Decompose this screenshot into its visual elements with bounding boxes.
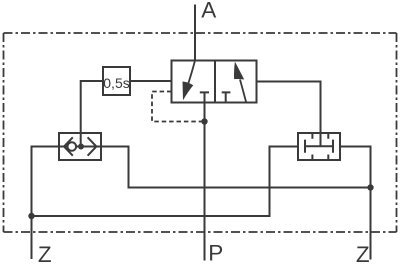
valve left flow arrow (188, 61, 195, 86)
junction dot in shuttle valve (78, 144, 84, 150)
valve U1 outline (172, 61, 257, 103)
wire: valve left to timer (130, 80, 172, 82)
svg-text:Z: Z (356, 242, 370, 267)
throttle internals: center stem (320, 133, 322, 146)
wire: throttle right port to Z2 (340, 147, 371, 260)
pilot line dashed box (152, 92, 202, 122)
wire: timer to shuttle valve (81, 81, 103, 147)
svg-text:P: P (208, 241, 223, 266)
junction dot on P pilot line (201, 118, 207, 124)
timer box T1 (103, 67, 130, 95)
junction dot Z2 (367, 184, 373, 190)
shuttle valve box V2 (59, 133, 101, 160)
wire: shuttle right port to Z2 node (101, 147, 371, 188)
svg-text:A: A (201, 0, 216, 22)
valve right flow arrow (240, 80, 246, 103)
port A line (194, 5, 196, 61)
port P line (204, 103, 206, 261)
wire: shuttle left port to Z1 (32, 147, 60, 260)
valve left position: blocked port T (200, 92, 209, 102)
shuttle valve right chevron (88, 137, 97, 155)
wire: valve right to throttle (257, 82, 321, 134)
shuttle valve left chevron (64, 137, 73, 155)
throttle internals: bottom ticks (312, 155, 328, 161)
wire: throttle left port to Z1 node (32, 147, 299, 217)
valve right position: blocked port T (222, 92, 231, 102)
throttle internals: middle bar with end caps (305, 140, 333, 153)
throttle box V3 (298, 133, 340, 160)
shuttle valve ball circle (68, 142, 77, 151)
svg-text:Z: Z (38, 242, 52, 267)
throttle internals: top ticks (312, 133, 328, 139)
junction dot Z1 (28, 213, 34, 219)
enclosure dash-dot border (4, 32, 397, 34)
shuttle valve flow line (59, 146, 101, 148)
svg-text:0,5s: 0,5s (103, 75, 129, 91)
